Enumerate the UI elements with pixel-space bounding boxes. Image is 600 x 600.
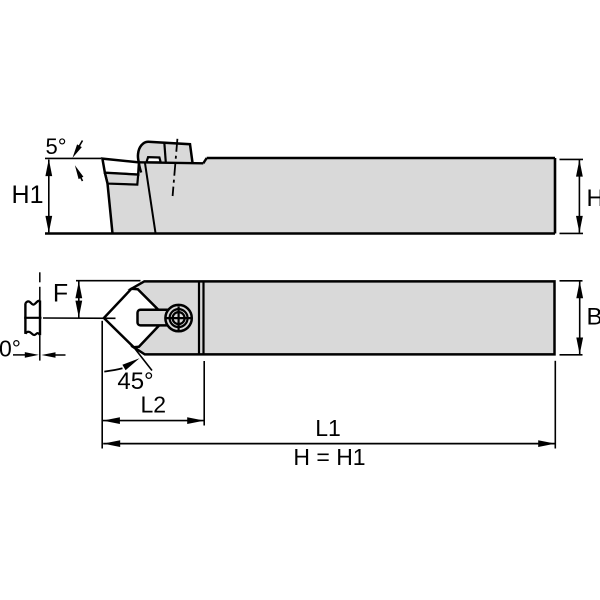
step between clamp seat and body top (203, 158, 206, 163)
insert profile bottom break wave (25, 332, 40, 335)
svg-text:5°: 5° (45, 134, 66, 159)
insert profile symbol right edge (39, 301, 41, 336)
toolholder body (plan view) (132, 281, 555, 354)
svg-text:F: F (53, 280, 68, 308)
L2 extension line left (101, 321, 103, 449)
clamp front tip over insert (139, 162, 142, 172)
clamp internal edge line (164, 142, 166, 162)
screw crosshair vertical (178, 306, 180, 330)
clamp screw boss outer circle (165, 305, 191, 331)
insert (side view, white) (102, 159, 139, 175)
head front edge (105, 173, 113, 234)
5 deg reference line (45, 157, 101, 159)
head/shank joint double line 2 (202, 281, 204, 354)
insert profile symbol left edge (24, 303, 26, 334)
clamp arm (plan view) (138, 310, 172, 326)
H1 dimension line (48, 160, 50, 233)
body right edge (554, 158, 557, 234)
head internal slant line (145, 163, 156, 233)
centerline gap dash (39, 287, 41, 301)
centerline below symbol (39, 335, 41, 360)
screw inner circle (173, 312, 185, 324)
H dimension line (578, 160, 580, 233)
svg-text:H = H1: H = H1 (293, 444, 365, 470)
svg-text:L2: L2 (141, 391, 167, 417)
F extension line (top of body extended) (76, 280, 141, 282)
insert edge 45deg extension line (134, 347, 152, 370)
0deg left arrow (13, 354, 26, 356)
B dimension line (579, 282, 581, 355)
svg-text:L1: L1 (315, 415, 341, 441)
B dimension extension lines (560, 280, 583, 282)
corner tip horizontal line (43, 317, 116, 319)
clamp gap notch (white sliver under clamp) (146, 157, 160, 162)
svg-text:H1: H1 (12, 181, 44, 209)
L2 extension line right (203, 361, 205, 426)
body bottom edge (extended left as extension line) (45, 232, 555, 234)
toolholder body silhouette (side view) (102, 142, 555, 234)
body top edge (207, 157, 555, 160)
insert diamond (plan view, white) (104, 289, 166, 348)
clamp seat line (139, 161, 204, 164)
screw middle circle (170, 309, 188, 327)
insert profile mid line (24, 317, 41, 319)
insert profile top break wave (25, 301, 40, 305)
0deg right arrow (55, 354, 66, 356)
5 deg upper arrow (76, 141, 83, 152)
H dimension extension lines (560, 158, 584, 160)
centerline above symbol (dash) (39, 272, 41, 282)
svg-text:B: B (587, 304, 600, 331)
clamp screw axis (dash-dot) (173, 139, 178, 196)
svg-text:0°: 0° (0, 336, 21, 362)
head/shank joint double line 1 (198, 281, 200, 354)
45deg leader arrow (104, 368, 122, 371)
L1 dimension line (103, 443, 555, 445)
F dimension line (78, 281, 80, 317)
clamp outline (side view) (138, 142, 193, 163)
screw crosshair horizontal (166, 317, 192, 319)
5 deg lower arrow (78, 172, 83, 181)
svg-text:H: H (587, 185, 600, 212)
L2 dimension line (103, 420, 204, 422)
shim under insert (side view) (105, 173, 138, 185)
L1 extension line right (554, 361, 556, 449)
